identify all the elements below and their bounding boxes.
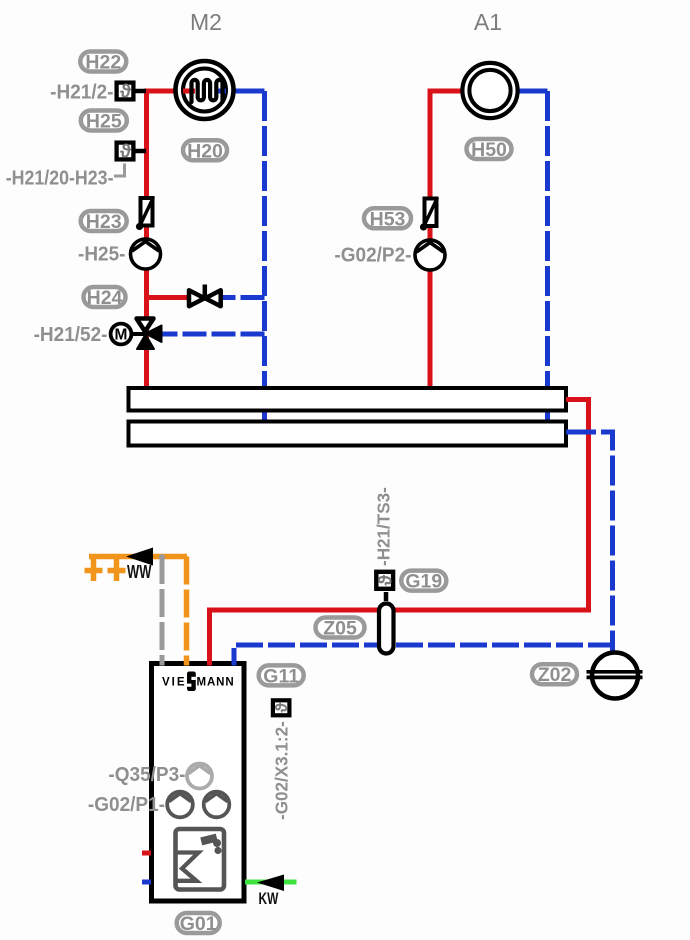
low-loss header Z05 (capsule) (379, 604, 394, 654)
wire red supply M2 vertical (144, 91, 149, 389)
svg-text:G19: G19 (405, 571, 442, 593)
svg-text:-H21/TS3-: -H21/TS3- (373, 487, 394, 566)
node A1 label (474, 9, 502, 35)
label H25 (81, 111, 127, 133)
burner nozzle marks (200, 834, 221, 854)
label -G02/P1- (88, 794, 165, 817)
wire blue return A1 vertical dashed (545, 91, 550, 389)
svg-text:WW: WW (127, 563, 152, 583)
label -H21/20-H23- with elbow (114, 164, 125, 177)
wire blue stub over boiler border (232, 660, 237, 666)
Viessmann logo (162, 672, 235, 692)
svg-text:H50: H50 (471, 139, 507, 161)
label H50 (467, 139, 512, 161)
svg-text:M: M (115, 327, 128, 344)
wire stub sensor to red line (136, 89, 147, 94)
svg-text:ϑ: ϑ (120, 142, 132, 163)
svg-text:H22: H22 (85, 52, 121, 74)
wire red branch to bypass valve (147, 295, 193, 300)
svg-text:-G02/P2-: -G02/P2- (334, 244, 411, 267)
sensor square -H21/2- (117, 82, 134, 103)
pump G02/P2 (415, 240, 445, 270)
wire orange DHW horizontal (89, 554, 187, 560)
arrow WW (points left) (126, 548, 153, 566)
motor M circle (111, 324, 146, 345)
wire red stub over boiler border (207, 660, 212, 666)
label G11 (259, 665, 304, 687)
boiler G01 body (152, 664, 245, 902)
three-way mixing valve H21/52 (137, 319, 162, 350)
svg-text:ϑ: ϑ (375, 575, 396, 586)
svg-text:VIE: VIE (162, 677, 187, 689)
svg-text:A1: A1 (474, 9, 502, 35)
wire red supply M2 horizontal to heat circuit (144, 89, 196, 94)
svg-text:H25: H25 (86, 111, 122, 133)
burner box (176, 829, 225, 890)
svg-text:-H25-: -H25- (78, 243, 125, 266)
svg-text:Z05: Z05 (323, 618, 357, 640)
valve H53 (rect with diagonal) (420, 198, 438, 231)
svg-text:KW: KW (259, 890, 279, 908)
wire blue return M2 vertical dashed (262, 91, 267, 389)
pump H25 (circle with chords) (131, 239, 161, 269)
label G01 (177, 913, 220, 935)
label -H21/52- (34, 324, 108, 347)
label H53 (364, 208, 411, 230)
label -G02/X3.1:2- vertical (271, 721, 292, 820)
wire blue return M2 horizontal from heat circuit (214, 89, 265, 94)
svg-text:G11: G11 (263, 665, 299, 687)
svg-text:ϑ: ϑ (272, 703, 291, 713)
arrow KW (points left) (257, 875, 284, 892)
wire gray sensor line dashed (159, 554, 165, 664)
valve H23 (rect with diagonal) (136, 197, 154, 230)
DHW tap connection 1 (cross) (85, 557, 103, 582)
wire red supply A1 horizontal (428, 89, 471, 94)
sensor square -H21/20-H23- (117, 142, 134, 163)
wire stub sensor2 to red line (136, 149, 147, 154)
label H20 (183, 140, 227, 162)
svg-text:-G02/P1-: -G02/P1- (88, 794, 165, 817)
pump G02/P1 a (dark gray) (167, 792, 193, 818)
manifold upper (supply header) (129, 388, 567, 411)
wire blue horizontal return to boiler dashed (234, 645, 615, 664)
svg-text:G01: G01 (180, 913, 217, 935)
heating circuit consumer H20 (circle with coil) (176, 61, 234, 119)
node M2 label (190, 9, 222, 35)
bypass valve (bowtie) (189, 285, 221, 307)
label KW (259, 890, 279, 908)
svg-text:M2: M2 (190, 9, 222, 35)
wire red supply A1 vertical (428, 91, 433, 389)
svg-text:-Q35/P3-: -Q35/P3- (108, 764, 185, 787)
wire orange DHW vertical dashed (184, 557, 190, 665)
pump G02/P1 b (dark gray) (204, 792, 230, 818)
sensor square -G02/X3.1:2- (272, 700, 291, 715)
label Z02 (532, 664, 577, 686)
svg-text:Z02: Z02 (538, 664, 572, 686)
pump Z02 (circle with double line) (587, 653, 643, 699)
wire blue branch from bypass valve dashed (220, 295, 265, 300)
wire blue return A1 horizontal (510, 89, 548, 94)
svg-text:H20: H20 (187, 140, 223, 162)
label -H21/TS3- vertical (373, 487, 394, 566)
boiler red stub left (142, 851, 151, 856)
svg-text:-G02/X3.1:2-: -G02/X3.1:2- (271, 721, 292, 820)
svg-text:H53: H53 (370, 208, 406, 230)
wire gray stub over boiler border (160, 660, 165, 666)
pump Q35/P3 (light gray) (187, 764, 212, 789)
wire blue from return header dashed (566, 432, 613, 645)
wire blue branch to mixing valve dashed (162, 332, 265, 337)
DHW tap connection 2 (cross) (108, 557, 126, 582)
label -Q35/P3- (108, 764, 185, 787)
label H23 (81, 211, 127, 233)
manifold lower (return header) (129, 422, 567, 446)
label -G02/P2- (334, 244, 411, 267)
svg-text:-H21/2-: -H21/2- (50, 81, 113, 104)
heating circuit consumer H50 (plain double circle) (462, 63, 517, 118)
boiler blue stub left (142, 880, 151, 885)
label Z05 (316, 618, 365, 640)
burner flame zigzag (178, 853, 199, 881)
label G19 (401, 571, 446, 593)
label -H21/2- (50, 81, 113, 104)
wire red from supply header to boiler (210, 400, 589, 665)
svg-text:-H21/52-: -H21/52- (34, 324, 108, 347)
sensor square G19 (375, 572, 396, 601)
wire blue return A1 stub through manifold gap (545, 409, 550, 423)
label WW (127, 563, 152, 583)
label H24 (84, 287, 126, 309)
wire blue return M2 stub through manifold gap (262, 409, 267, 423)
wire blue stub to Z02 (610, 638, 615, 653)
wire green KW line (245, 880, 297, 885)
label H22 (80, 52, 126, 74)
svg-text:H24: H24 (87, 287, 123, 309)
svg-text:MANN: MANN (197, 677, 235, 689)
svg-text:H23: H23 (86, 211, 122, 233)
wire orange stub over boiler border (184, 660, 190, 666)
label -H25- (78, 243, 125, 266)
svg-text:-H21/20-H23-: -H21/20-H23- (6, 168, 114, 190)
svg-text:ϑ: ϑ (120, 82, 132, 103)
